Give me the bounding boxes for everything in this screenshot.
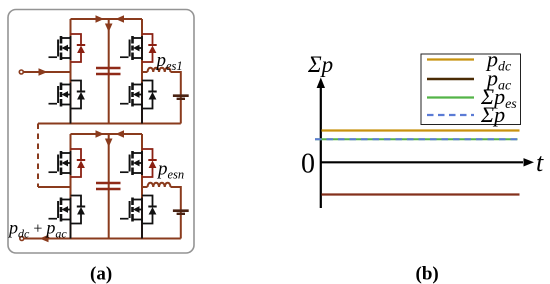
svg-text:pesn: pesn: [156, 159, 184, 182]
svg-text:(b): (b): [416, 264, 439, 284]
svg-text:0: 0: [301, 149, 315, 180]
svg-text:(a): (a): [90, 264, 112, 284]
svg-text:Σp: Σp: [480, 102, 505, 127]
svg-text:t: t: [536, 148, 544, 177]
svg-text:Σp: Σp: [307, 52, 333, 77]
svg-text:pdc + pac: pdc + pac: [7, 218, 67, 241]
svg-text:pes1: pes1: [155, 50, 183, 73]
